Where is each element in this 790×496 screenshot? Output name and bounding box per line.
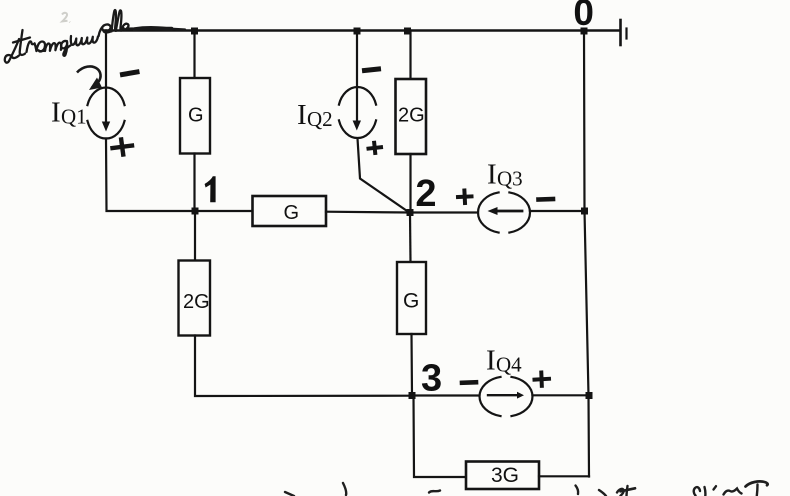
wire node 3 to IQ4: [412, 394, 479, 396]
ground reference terminal at node 0: [621, 20, 627, 45]
junction dot top rail / 2G branch: [404, 28, 411, 35]
polarity minus of IQ3: [539, 197, 554, 202]
wire IQ4 to right rail: [533, 394, 590, 396]
wire node 1 to resistor G horizontal: [195, 210, 252, 212]
label IQ2: [297, 99, 333, 131]
wire IQ3 to right rail: [530, 210, 584, 212]
wire resistor G lower to node 3: [410, 334, 413, 396]
wire resistor G horizontal to node 2: [326, 211, 410, 214]
wire IQ1 bottom to node 1: [106, 139, 195, 212]
polarity plus of IQ3: [458, 191, 472, 204]
svg-text:Q4: Q4: [496, 353, 522, 377]
wire left drop from top rail to IQ1: [105, 31, 107, 124]
wire resistor 2G left down and right to node 3: [195, 336, 412, 397]
wire top rail to IQ2: [356, 31, 358, 124]
label IQ3: [487, 159, 523, 191]
svg-text:0: 0: [573, 0, 594, 33]
node 1 junction dot: [192, 208, 199, 215]
polarity minus of IQ4: [462, 380, 476, 385]
junction dot top rail / G branch: [191, 28, 198, 35]
polarity plus of IQ4: [535, 373, 550, 386]
svg-text:2: 2: [415, 173, 436, 215]
svg-text:3: 3: [421, 357, 442, 399]
junction dot top rail / IQ2 branch: [354, 28, 361, 35]
label IQ4: [486, 345, 522, 377]
svg-text:2G: 2G: [183, 291, 210, 313]
svg-text:I: I: [487, 159, 497, 191]
svg-text:Q1: Q1: [61, 105, 87, 129]
svg-text:G: G: [188, 105, 204, 127]
annotation handwritten arrow pointing to IQ1: [77, 66, 102, 90]
current source IQ3: [478, 192, 530, 232]
wire node 1 down to resistor 2G (left): [194, 211, 196, 261]
polarity minus of IQ1: [123, 72, 138, 75]
wire node 2 down to resistor G (lower): [409, 213, 412, 262]
current source IQ1: [87, 87, 124, 138]
wire top rail to resistor G (branch 1): [193, 31, 195, 79]
wire node 2 to IQ3: [410, 211, 478, 213]
resistor 2G (node1 - node3): [179, 261, 211, 336]
annotation faint handwriting fragments along bottom edge: [285, 481, 768, 496]
resistor G (node1 - node2): [253, 196, 327, 226]
node 2 junction dot: [407, 209, 414, 216]
polarity plus of IQ1: [113, 140, 133, 155]
resistor G (node2 - node3): [397, 262, 426, 334]
resistor 2G (node2 - node0): [396, 79, 427, 154]
junction dot right rail / IQ3: [581, 208, 588, 215]
wire right rail from node 0 down to bottom loop: [584, 31, 589, 477]
svg-text:G: G: [403, 290, 419, 313]
polarity plus of IQ2: [369, 143, 382, 153]
annotation handwritten word stromquelle: [5, 10, 185, 63]
wire resistor 3G to right rail: [539, 475, 589, 477]
resistor G (node1 - node0): [180, 78, 210, 154]
annotation faint pencil smudge above stromquelle: [62, 13, 70, 23]
resistor 3G (node3 - node0): [466, 462, 539, 490]
wire resistor 2G to node 2: [409, 154, 411, 212]
current source IQ4: [480, 377, 533, 416]
svg-text:I: I: [51, 97, 61, 129]
label IQ1: [51, 97, 87, 129]
wire resistor G to node 1: [193, 154, 195, 212]
wire top rail node 0: [104, 29, 620, 32]
junction dot right rail / IQ4: [586, 392, 593, 399]
node 0 junction dot: [581, 28, 588, 35]
current source IQ2: [339, 87, 376, 138]
wire top rail to resistor 2G (right): [409, 31, 411, 80]
svg-text:Q2: Q2: [307, 107, 333, 131]
wire node 3 down to bottom loop: [414, 396, 467, 478]
svg-text:I: I: [297, 99, 307, 131]
svg-text:I: I: [486, 345, 496, 377]
svg-text:2G: 2G: [398, 105, 425, 127]
svg-text:G: G: [284, 202, 300, 224]
node 1 label: [205, 176, 216, 202]
wire IQ2 bottom diagonal to node 2: [358, 139, 411, 214]
node 3 junction dot: [409, 392, 416, 399]
svg-text:3G: 3G: [491, 464, 519, 487]
svg-text:Q3: Q3: [497, 167, 523, 191]
polarity minus of IQ2: [365, 69, 379, 71]
